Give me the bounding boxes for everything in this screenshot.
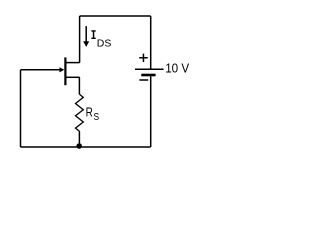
wire source vertical xyxy=(78,77,80,94)
label R_S xyxy=(86,105,100,122)
current arrow IDS xyxy=(83,26,89,47)
transistor Q1 gate wire xyxy=(21,69,60,71)
wire resistor bottom lead xyxy=(78,131,80,147)
battery V1 positive plate (long) xyxy=(135,68,164,70)
node junction dot xyxy=(76,143,82,149)
transistor Q1 drain lead xyxy=(65,62,80,64)
svg-text:R: R xyxy=(86,105,93,119)
wire right rail lower xyxy=(150,76,152,147)
svg-text:10 V: 10 V xyxy=(165,61,189,76)
wire top (drain rail to battery +) xyxy=(80,15,151,17)
label I_DS xyxy=(91,30,111,49)
svg-text:S: S xyxy=(94,112,100,123)
transistor Q1 channel bar xyxy=(64,57,66,85)
resistor RS zigzag xyxy=(76,94,84,131)
wire drain vertical xyxy=(79,16,81,63)
battery minus sign xyxy=(139,79,148,81)
wire left rail (gate loop) xyxy=(20,70,22,147)
svg-text:DS: DS xyxy=(97,37,112,49)
battery plus sign xyxy=(139,54,148,62)
battery V1 negative plate (short thick) xyxy=(141,74,155,77)
wire right rail upper xyxy=(150,16,152,69)
transistor Q1 source lead xyxy=(65,76,80,78)
wire bottom xyxy=(21,146,151,148)
transistor Q1 gate arrowhead xyxy=(59,67,64,72)
